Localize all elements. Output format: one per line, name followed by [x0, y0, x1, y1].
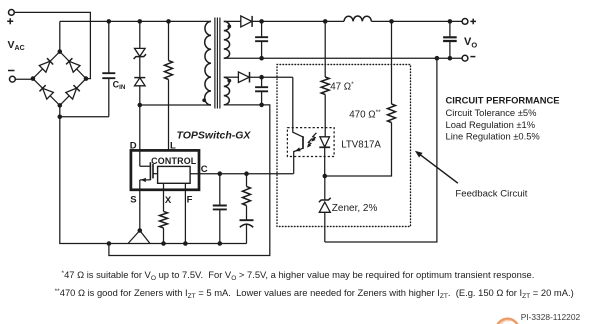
svg-text:Circuit Tolerance ±5%: Circuit Tolerance ±5% [446, 107, 537, 118]
svg-text:Load Regulation ±1%: Load Regulation ±1% [446, 119, 536, 130]
svg-text:Zener, 2%: Zener, 2% [332, 203, 378, 214]
opto light arrows [307, 133, 317, 148]
wire opto emitter to C line [293, 157, 295, 174]
junction C at control cap [218, 171, 223, 176]
bridge diode lower-right [66, 85, 80, 99]
wire Vo- rail [224, 57, 462, 59]
wire - terminal to bridge left vertex [15, 78, 33, 80]
output - terminal [462, 55, 475, 61]
zener diode VR2 [319, 176, 331, 242]
wire bridge top to DC+ rail [59, 21, 61, 51]
wire bias node [250, 77, 293, 127]
label CONTROL [151, 156, 197, 166]
opto LED [319, 137, 330, 176]
svg-text:Line Regulation ±0.5%: Line Regulation ±0.5% [446, 131, 540, 142]
wire + terminal to bridge right vertex [14, 12, 90, 78]
svg-text:LTV817A: LTV817A [341, 139, 381, 150]
label LTV817A [341, 139, 381, 150]
svg-text:CONTROL: CONTROL [151, 156, 197, 166]
wire bridge bottom to primary rail [60, 105, 247, 243]
label PI-3328-112202 [521, 312, 581, 322]
label feedback circuit [455, 188, 527, 199]
label 470 ohm [349, 109, 381, 121]
feedback circuit dotted box [277, 65, 411, 227]
feedback arrow [415, 151, 458, 184]
junction S fan [138, 228, 143, 233]
label circuit performance [446, 95, 560, 142]
junction at output cap 2 [448, 19, 453, 24]
wire S fan legs [128, 231, 150, 244]
transformer core [215, 18, 220, 109]
bridge rectifier frame [33, 52, 86, 106]
pin label S [130, 195, 136, 206]
label zener [332, 203, 378, 214]
wire output diode to inductor [252, 20, 344, 22]
transformer bias winding [224, 77, 230, 105]
junction Vo- at output cap 2 [448, 56, 453, 61]
svg-text:L: L [170, 140, 176, 151]
transformer secondary winding [224, 21, 230, 58]
svg-text:PI-3328-112202: PI-3328-112202 [521, 312, 581, 322]
resistor 470 ohm [325, 21, 396, 176]
label 47 ohm [330, 81, 354, 93]
svg-text:47 Ω*: 47 Ω* [330, 81, 354, 93]
junction zener top [323, 174, 328, 179]
resistor 47 ohm [321, 21, 329, 136]
output diode [241, 16, 252, 27]
junction C at RC [244, 171, 249, 176]
output + terminal [462, 19, 476, 25]
wire bias return [109, 105, 270, 256]
junction DC+ at sense resistor [166, 19, 171, 24]
wire drain node to D pin [139, 105, 141, 150]
wire inductor to + output [371, 20, 462, 22]
footnote 2 [55, 287, 574, 300]
wire drain node to primary bottom [140, 104, 211, 106]
transformer secondary polarity dot [227, 25, 231, 29]
RC snubber capacitor [240, 220, 254, 243]
RC snubber resistor [243, 174, 251, 221]
pin label C [201, 164, 208, 175]
clamp zener VR1 [134, 21, 146, 59]
svg-text:S: S [130, 195, 136, 206]
transformer primary polarity dot [202, 98, 206, 102]
line sense resistor [165, 21, 173, 150]
svg-text:Feedback Circuit: Feedback Circuit [455, 188, 527, 199]
junction at 47 ohm [323, 19, 328, 24]
optocoupler U2 dashed box [287, 128, 334, 157]
svg-text:F: F [187, 195, 193, 206]
wire secondary to output diode [224, 20, 241, 22]
capacitor control [213, 174, 227, 246]
wire S pin [139, 190, 141, 231]
junction DC+ at clamp [138, 19, 143, 24]
PI logo arc [496, 319, 519, 324]
junction bridge line at CIN return [58, 115, 63, 120]
bridge diode upper-right [66, 58, 80, 72]
svg-text:CIRCUIT PERFORMANCE: CIRCUIT PERFORMANCE [446, 95, 560, 106]
wire F pin [183, 183, 188, 246]
AC input - terminal [8, 71, 15, 83]
capacitor output filter 1 [255, 21, 268, 60]
junction DC+ at CIN [107, 19, 112, 24]
capacitor output 2 [443, 21, 457, 58]
wire zener return [325, 58, 437, 242]
junction bias at cap [259, 75, 264, 80]
pin label L [170, 140, 176, 151]
wire bias winding to bias diode [224, 76, 239, 78]
TOPSwitch U1 body [131, 150, 199, 189]
label VO [464, 36, 477, 49]
label VAC [8, 39, 25, 52]
opto phototransistor [293, 128, 303, 157]
junction at 470 ohm [389, 19, 394, 24]
wire CIN bottom to bridge line [60, 116, 109, 118]
control block [158, 166, 191, 183]
bridge diode upper-left [39, 58, 53, 72]
clamp blocking diode [134, 57, 145, 105]
junction at output filter cap [259, 19, 264, 24]
label CIN [113, 79, 126, 91]
AC input + terminal [7, 10, 14, 25]
label TOPSwitch-GX [177, 130, 252, 142]
svg-text:TOPSwitch-GX: TOPSwitch-GX [177, 130, 252, 142]
bias diode [238, 72, 249, 83]
wire DC+ rail [60, 20, 211, 22]
resistor X pin [160, 183, 168, 246]
transformer bias polarity dot [227, 79, 231, 83]
svg-text:X: X [165, 195, 172, 206]
pin label D [130, 140, 137, 151]
pin label F [187, 195, 193, 206]
bridge diode lower-left [40, 85, 54, 99]
svg-text:C: C [201, 164, 208, 175]
junction primary rail at bias return [107, 241, 112, 246]
footnote 1 [62, 269, 535, 282]
pin label X [165, 195, 172, 206]
svg-text:D: D [130, 140, 137, 151]
wire C pin line [190, 173, 294, 175]
capacitor CIN [102, 21, 115, 116]
junction Vo- at zener return [435, 56, 440, 61]
node drain junction [138, 103, 143, 108]
bridge vertex junctions [31, 49, 89, 107]
transformer T1 primary winding [205, 21, 211, 105]
output inductor [344, 16, 371, 21]
capacitor bias [255, 77, 268, 107]
internal MOSFET [140, 150, 158, 189]
